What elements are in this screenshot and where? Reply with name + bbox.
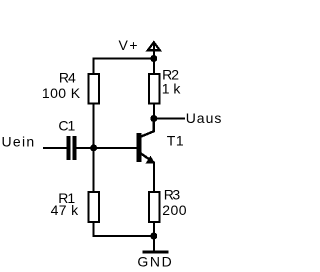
svg-text:47 k: 47 k — [51, 202, 80, 218]
svg-text:C1: C1 — [58, 118, 75, 134]
wire Uaus lead — [154, 118, 185, 120]
power symbol V+ — [148, 42, 160, 58]
wire left vertical R1 to bottom — [93, 222, 95, 237]
svg-text:Uein: Uein — [2, 134, 36, 150]
wire emitter vertical — [153, 162, 155, 193]
wire left vertical V+ to R4 — [93, 58, 95, 75]
svg-text:100 K: 100 K — [42, 85, 81, 101]
svg-text:T1: T1 — [167, 132, 184, 148]
svg-text:V+: V+ — [119, 37, 140, 53]
resistor R4 — [42, 69, 99, 103]
node ground junction — [150, 233, 157, 240]
ground — [137, 252, 173, 269]
svg-text:R4: R4 — [59, 69, 76, 85]
wire Uein lead — [43, 147, 67, 149]
resistor R2 — [149, 67, 181, 104]
svg-text:R3: R3 — [164, 187, 181, 203]
capacitor C1 — [58, 118, 76, 160]
wire R3 to ground node — [153, 222, 155, 236]
label V+ — [119, 37, 140, 53]
label Uein — [2, 134, 36, 150]
node C1/base junction — [90, 144, 97, 151]
svg-text:GND: GND — [137, 253, 173, 269]
resistor R1 — [51, 190, 99, 222]
transistor T1 — [137, 119, 184, 164]
wire bottom horizontal — [93, 235, 155, 237]
svg-text:200: 200 — [162, 202, 187, 218]
node V+ junction — [150, 55, 157, 62]
svg-text:Uaus: Uaus — [186, 110, 223, 126]
wire right vertical V+ to R2 — [153, 59, 155, 75]
wire left vertical R4 to R1 — [93, 104, 95, 192]
wire ground stub — [153, 236, 155, 251]
resistor R3 — [149, 187, 187, 222]
svg-text:1 k: 1 k — [162, 80, 182, 96]
wire top horizontal — [93, 58, 155, 60]
label Uaus — [186, 110, 223, 126]
node Uaus junction — [150, 115, 157, 122]
wire R2 to Uaus node — [153, 104, 155, 119]
wire base wire C1 to T1 — [77, 147, 137, 149]
